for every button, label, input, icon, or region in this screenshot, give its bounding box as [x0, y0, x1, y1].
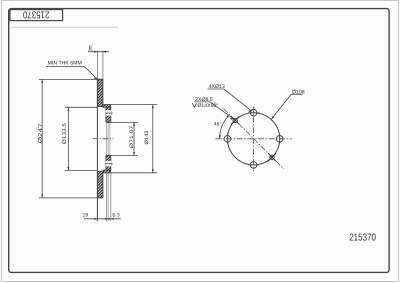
dimension D133.5	[65, 106, 98, 108]
svg-text:215370: 215370	[23, 9, 50, 20]
hat wall bottom (hatched)	[106, 156, 111, 171]
dimension D247	[39, 78, 98, 80]
dimension 19 and 6.3	[84, 218, 121, 220]
dimension 8 line	[88, 51, 109, 53]
countersunk hole lower-right	[270, 155, 274, 159]
hat web top (hatched)	[103, 105, 111, 108]
extension line 108.2	[107, 122, 109, 155]
bolt hole centerline bottom	[105, 163, 113, 165]
svg-text:MIN THK 6MM: MIN THK 6MM	[48, 60, 82, 66]
svg-text:8: 8	[89, 45, 92, 51]
bore edge top	[107, 121, 111, 123]
vertical centerline	[253, 106, 255, 171]
bore edge bottom	[107, 155, 111, 157]
svg-text:215370: 215370	[349, 232, 376, 243]
dimension D143	[110, 104, 158, 106]
svg-text:6.3: 6.3	[112, 212, 119, 218]
disc plate bottom (hatched)	[97, 171, 103, 198]
hat web bottom (hatched)	[103, 170, 111, 173]
part number top-left (rotated)	[23, 9, 50, 20]
svg-text:Ø247: Ø247	[38, 123, 44, 143]
diagonal centerline	[224, 109, 284, 169]
extension line 106.4	[105, 122, 107, 155]
countersink symbol and D14X90	[192, 103, 196, 107]
hole right	[276, 136, 283, 143]
svg-text:Ø133.5: Ø133.5	[62, 123, 68, 144]
svg-text:Ø71.07: Ø71.07	[129, 125, 135, 148]
horizontal centerline	[216, 138, 292, 140]
countersunk hole upper-left	[233, 118, 237, 122]
axis centerline	[93, 138, 114, 140]
disc plate top (hatched)	[97, 79, 103, 106]
bolt circle D108	[228, 113, 280, 165]
hole bottom	[250, 162, 257, 169]
hole top	[250, 109, 257, 116]
extension line 110.8 lower	[110, 173, 112, 221]
bolt hole gap bottom	[106, 161, 111, 166]
disc outboard face line	[96, 79, 98, 221]
extension line 106.4 lower	[105, 173, 107, 221]
svg-text:Ø14X90°: Ø14X90°	[197, 103, 218, 109]
45 degree arc	[220, 115, 230, 139]
bolt hole gap top	[106, 110, 111, 115]
bolt hole centerline top	[105, 112, 113, 114]
extension line 109.9	[109, 122, 111, 155]
dimension D71.07	[111, 121, 138, 123]
dimension 8 ext lines	[96, 51, 98, 80]
hole left	[224, 136, 231, 143]
svg-text:Ø143: Ø143	[144, 130, 150, 144]
title box	[10, 10, 63, 21]
hat wall top (hatched)	[106, 107, 111, 122]
svg-text:45°: 45°	[214, 121, 222, 127]
svg-text:19: 19	[83, 212, 89, 218]
faint sheet line	[11, 26, 118, 28]
extension line 108.2 lower	[107, 173, 109, 221]
